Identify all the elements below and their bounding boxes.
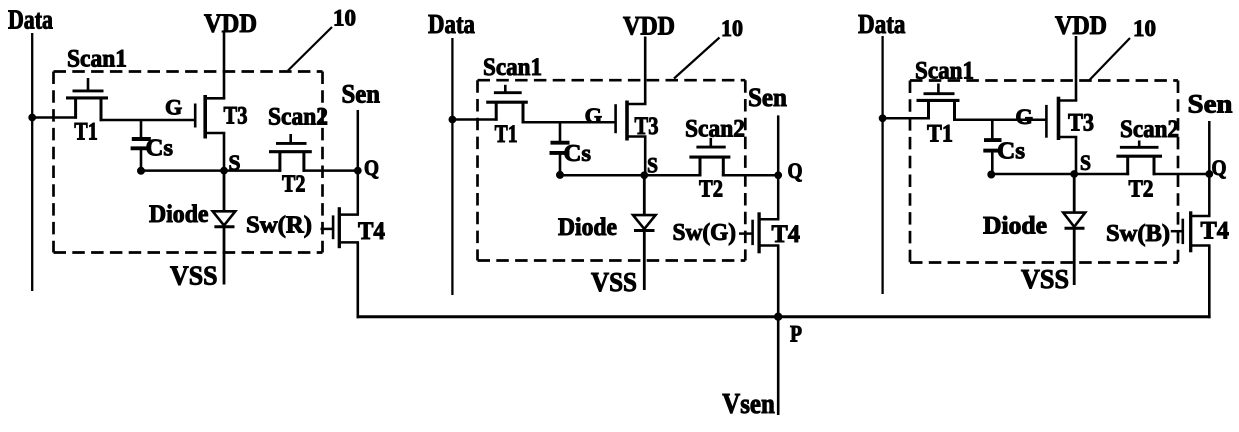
svg-text:Scan1: Scan1	[483, 52, 542, 81]
wire node S row, T2 to node Q (cell 3)	[1153, 173, 1210, 176]
svg-text:T4: T4	[1201, 218, 1230, 245]
junction dot at Cs bottom (cell 3)	[988, 171, 995, 178]
transistor T4 (cell 3)	[1171, 211, 1230, 252]
svg-text:Diode: Diode	[149, 201, 209, 228]
svg-text:VSS: VSS	[170, 261, 218, 291]
svg-text:T2: T2	[282, 172, 306, 198]
junction dot at Cs bottom (cell 2)	[557, 171, 564, 178]
wire T3 source to node S (cell 2)	[644, 137, 647, 176]
wire T3 source to node S (cell 1)	[223, 133, 226, 171]
svg-text:Cs: Cs	[997, 139, 1025, 165]
svg-text:10: 10	[333, 5, 356, 30]
wire T4 source down to sense bus (cell 1)	[356, 242, 359, 318]
wire T4 source down to sense bus (cell 3)	[1208, 246, 1211, 319]
dashed box pixel circuit 10 outline (cell 3)	[910, 81, 1178, 263]
svg-text:Cs: Cs	[146, 136, 174, 162]
svg-text:T4: T4	[358, 218, 385, 245]
label 10 callout with leader line (cell 1)	[288, 5, 356, 70]
svg-text:T1: T1	[927, 119, 953, 148]
transistor T1 (cell 3)	[917, 84, 960, 148]
junction dot on Data line (cell 1)	[29, 114, 36, 121]
svg-text:Diode: Diode	[558, 214, 617, 241]
transistor T4 (cell 1)	[321, 207, 386, 248]
node Q junction dot (cell 1)	[354, 167, 361, 174]
transistor T3 (cell 3)	[1046, 97, 1094, 140]
wire Vsen line	[777, 318, 780, 415]
svg-text:Sen: Sen	[1188, 89, 1233, 119]
transistor T2 (cell 1)	[269, 134, 312, 198]
svg-text:T2: T2	[699, 177, 723, 203]
svg-text:G: G	[585, 103, 603, 128]
svg-text:Scan2: Scan2	[1120, 114, 1179, 143]
wire T1 drain to T3 gate, node G (cell 1)	[100, 119, 196, 122]
wire VDD supply line (cell 3)	[1075, 36, 1078, 101]
svg-text:Vsen: Vsen	[722, 389, 775, 420]
svg-text:Q: Q	[1212, 155, 1227, 180]
capacitor Cs (cell 2)	[550, 122, 592, 175]
wire node S row, Cs to T2 (cell 1)	[141, 169, 281, 172]
diode Diode (cell 3)	[1063, 174, 1085, 285]
node S junction dot (cell 3)	[1071, 171, 1078, 178]
svg-text:Cs: Cs	[564, 141, 592, 167]
dashed box pixel circuit 10 outline (cell 1)	[54, 72, 323, 253]
svg-text:VSS: VSS	[1021, 264, 1069, 294]
svg-text:T3: T3	[1068, 108, 1094, 137]
wire node S row, Cs to T2 (cell 3)	[992, 173, 1129, 176]
svg-text:Q: Q	[788, 158, 803, 183]
svg-text:Diode: Diode	[983, 213, 1047, 240]
svg-text:Scan1: Scan1	[915, 56, 974, 85]
junction dot at Cs bottom (cell 1)	[138, 167, 145, 174]
svg-text:G: G	[165, 95, 182, 120]
node Q junction dot (cell 2)	[775, 172, 782, 179]
svg-text:T3: T3	[224, 100, 248, 129]
svg-text:Sw(R): Sw(R)	[246, 213, 312, 239]
transistor T3 (cell 1)	[195, 95, 247, 139]
capacitor Cs (cell 1)	[131, 120, 173, 171]
wire T1 drain to T3 gate, node G (cell 3)	[953, 119, 1046, 122]
junction dot on Data line (cell 2)	[449, 116, 456, 123]
svg-text:10: 10	[721, 16, 743, 41]
svg-text:Sen: Sen	[342, 79, 381, 109]
svg-text:Scan2: Scan2	[268, 102, 328, 131]
wire Data to T1 source (cell 1)	[32, 116, 77, 119]
wire Data line (cell 1)	[31, 33, 33, 291]
node S junction dot (cell 2)	[641, 172, 648, 179]
label 10 callout with leader line (cell 3)	[1089, 16, 1156, 81]
wire Data line (cell 2)	[451, 38, 453, 295]
svg-text:Data: Data	[8, 5, 53, 35]
transistor T4 (cell 2)	[739, 212, 800, 253]
wire node S row, T2 to node Q (cell 1)	[303, 169, 358, 172]
dashed box pixel circuit 10 outline (cell 2)	[478, 80, 746, 260]
svg-text:VDD: VDD	[1055, 11, 1107, 40]
svg-text:Scan2: Scan2	[685, 114, 745, 143]
svg-text:T1: T1	[74, 116, 98, 145]
svg-text:T1: T1	[495, 119, 518, 148]
diode Diode (cell 2)	[633, 175, 656, 290]
svg-text:VDD: VDD	[204, 9, 257, 38]
svg-text:10: 10	[1133, 16, 1156, 41]
transistor T2 (cell 2)	[689, 138, 730, 203]
junction dot on Data line (cell 3)	[879, 115, 886, 122]
wire VDD supply line (cell 2)	[644, 37, 647, 105]
wire Sen line upper (cell 3)	[1208, 121, 1211, 216]
transistor T1 (cell 1)	[66, 78, 108, 145]
svg-text:G: G	[1015, 104, 1033, 129]
diode Diode (cell 1)	[213, 171, 236, 285]
wire node S row, Cs to T2 (cell 2)	[560, 174, 701, 177]
svg-text:S: S	[647, 153, 658, 178]
svg-text:Sw(B): Sw(B)	[1106, 221, 1170, 247]
wire T4 source down to sense bus (cell 2)	[777, 246, 780, 319]
wire VDD supply line (cell 1)	[223, 32, 226, 98]
svg-text:P: P	[790, 322, 802, 347]
transistor T1 (cell 2)	[486, 85, 528, 148]
svg-text:S: S	[229, 150, 241, 175]
svg-text:VDD: VDD	[623, 12, 675, 41]
wire T3 source to node S (cell 3)	[1075, 137, 1078, 174]
svg-text:T4: T4	[772, 221, 801, 248]
node S junction dot (cell 1)	[221, 167, 228, 174]
transistor T3 (cell 2)	[616, 101, 659, 141]
svg-text:Sw(G): Sw(G)	[673, 220, 737, 246]
svg-text:Q: Q	[364, 155, 379, 180]
svg-text:S: S	[1080, 150, 1091, 175]
svg-text:T2: T2	[1129, 177, 1154, 203]
svg-text:Data: Data	[858, 9, 906, 39]
label 10 callout with leader line (cell 2)	[674, 16, 743, 79]
capacitor Cs (cell 3)	[983, 120, 1025, 174]
transistor T2 (cell 3)	[1116, 141, 1162, 203]
wire Data to T1 source (cell 2)	[452, 118, 497, 121]
svg-text:Data: Data	[428, 9, 475, 39]
svg-text:VSS: VSS	[591, 267, 637, 297]
svg-text:Scan1: Scan1	[67, 44, 127, 73]
wire T1 drain to T3 gate, node G (cell 2)	[522, 121, 616, 124]
node Q junction dot (cell 3)	[1206, 171, 1213, 178]
wire sense bus bottom horizontal	[357, 315, 1211, 318]
wire Sen line upper (cell 2)	[777, 115, 780, 219]
svg-text:Sen: Sen	[748, 82, 787, 112]
wire Sen line upper (cell 1)	[357, 110, 360, 215]
wire node S row, T2 to node Q (cell 2)	[722, 174, 778, 177]
node P junction dot	[775, 313, 782, 320]
svg-text:T3: T3	[635, 111, 659, 140]
wire Data line (cell 3)	[881, 36, 883, 294]
wire Data to T1 source (cell 3)	[883, 117, 930, 120]
